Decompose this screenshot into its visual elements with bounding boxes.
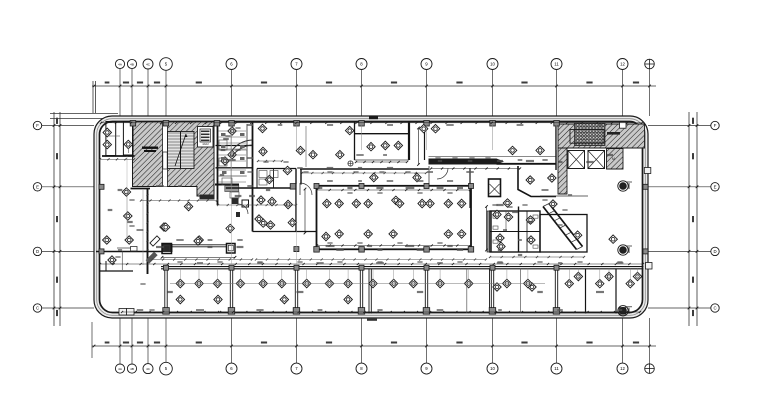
svg-text:11: 11 xyxy=(554,62,559,67)
svg-text:4A02: 4A02 xyxy=(202,142,209,146)
svg-text:E: E xyxy=(36,184,39,189)
svg-text:C: C xyxy=(36,306,39,311)
svg-text:4B: 4B xyxy=(130,367,134,371)
svg-text:M: M xyxy=(612,157,615,161)
svg-text:12: 12 xyxy=(620,366,625,371)
svg-text:F: F xyxy=(36,123,39,128)
svg-text:10: 10 xyxy=(490,62,495,67)
svg-text:E: E xyxy=(714,184,717,189)
svg-text:4A: 4A xyxy=(118,367,122,371)
svg-text:12: 12 xyxy=(620,62,625,67)
svg-text:D: D xyxy=(36,249,39,254)
svg-text:10: 10 xyxy=(490,366,495,371)
svg-text:4A: 4A xyxy=(118,63,122,67)
svg-text:11: 11 xyxy=(554,366,559,371)
svg-text:C: C xyxy=(713,306,716,311)
svg-text:4B: 4B xyxy=(130,63,134,67)
svg-text:F: F xyxy=(714,123,717,128)
svg-text:D: D xyxy=(713,249,716,254)
